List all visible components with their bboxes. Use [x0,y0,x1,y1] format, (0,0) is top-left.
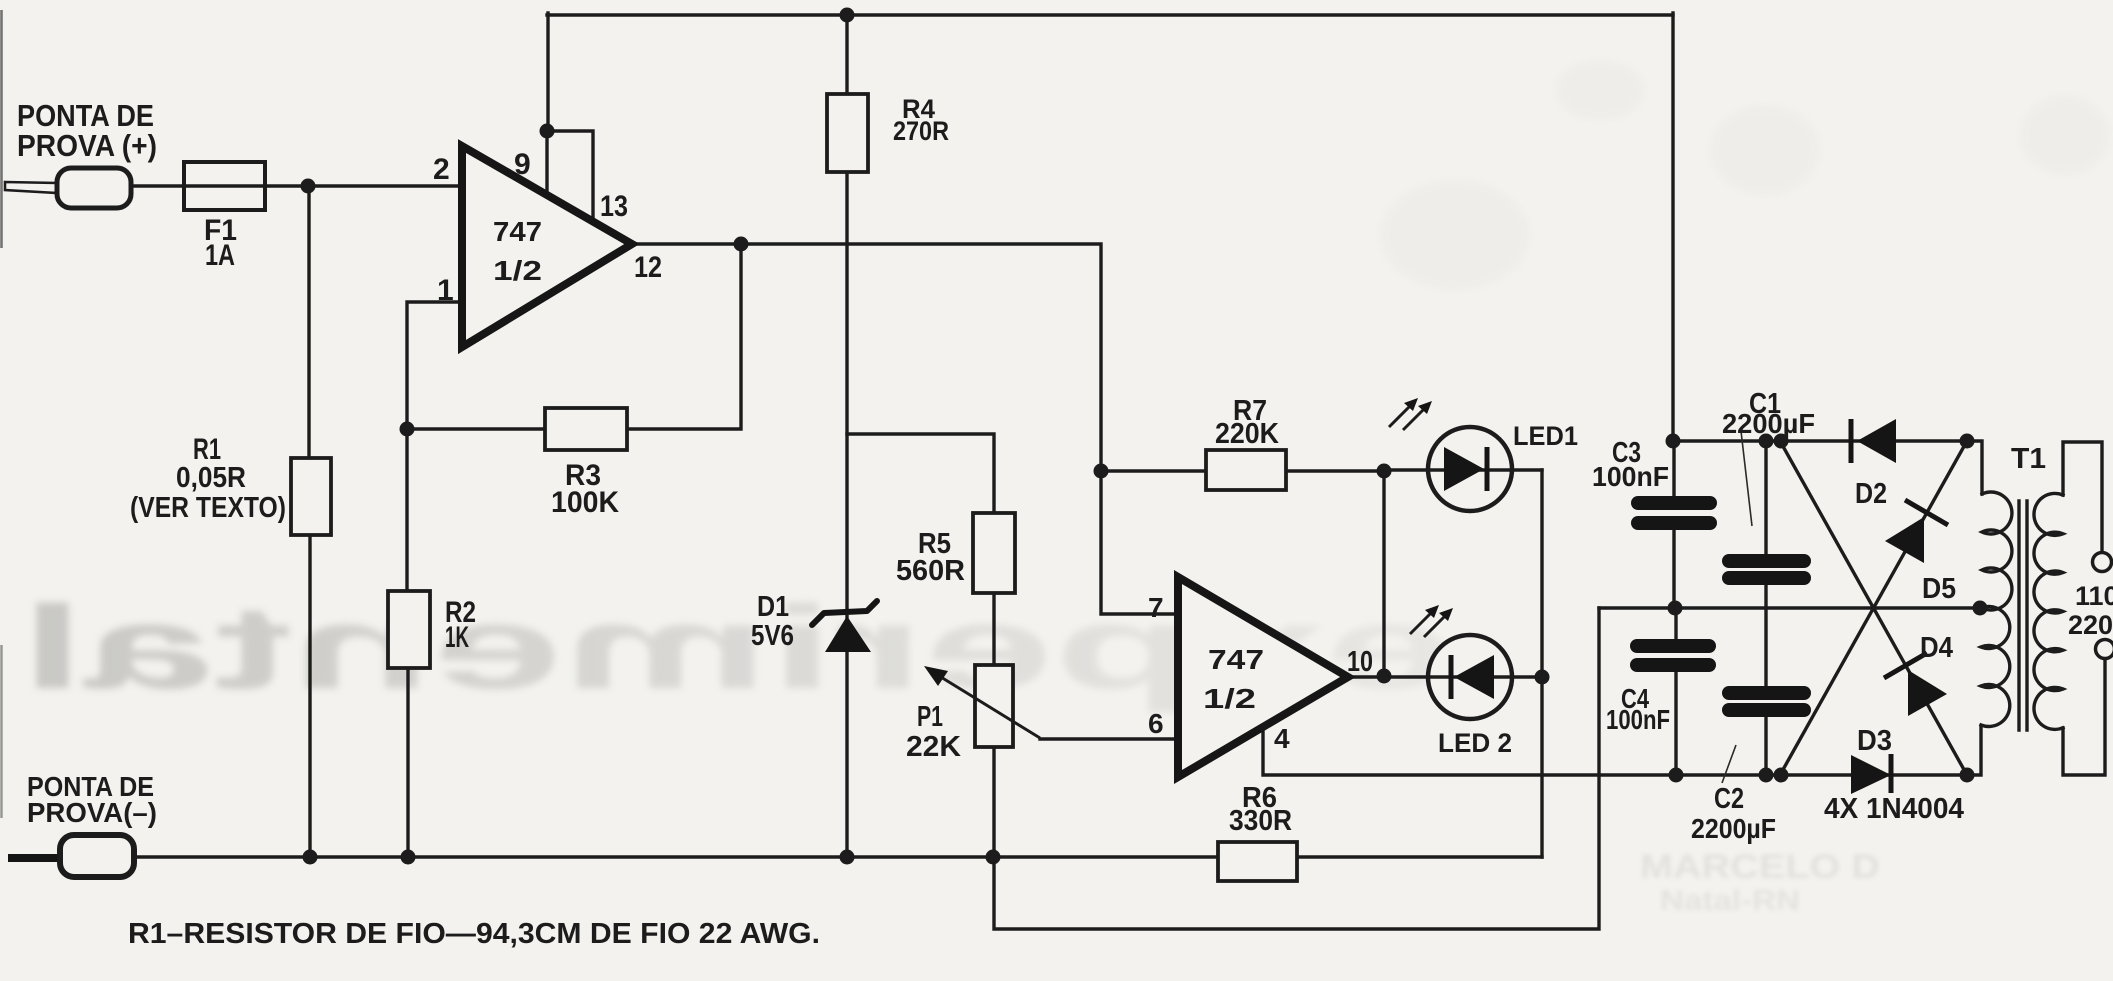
wire C1 C2 leads [1764,441,1767,775]
wire R3 to feedback riser [627,245,741,429]
resistor R6 [1218,842,1297,881]
wire R5 to P1 [992,593,995,665]
junction op2 output node [1377,669,1392,684]
transformer T1 core [2019,501,2027,730]
svg-text:0,05R: 0,05R [176,462,246,494]
junction bridge top left [1774,434,1789,449]
wire bridge diagonal D4 [1780,441,1967,775]
junction bridge top right [1960,434,1975,449]
junction R7 left node [1094,464,1109,479]
junction pin9 node [540,124,555,139]
capacitor C3 100nF [1631,496,1717,530]
diode D5 [1885,500,1948,563]
wire R7 right [1286,469,1384,472]
junction R2 bottom rail [401,850,416,865]
wire R2 to bottom rail [406,668,409,857]
terminal 220V [2096,640,2113,659]
wire node to R1 [307,186,310,458]
LED1 [1389,398,1512,511]
diode D3 [1851,754,1891,794]
svg-text:13: 13 [600,190,628,223]
terminal 110V [2093,553,2112,572]
wire LED column left riser [1382,471,1385,677]
svg-text:Natal-RN: Natal-RN [1660,885,1800,917]
junction P1 bottom rail [986,850,1001,865]
resistor R2 [388,591,430,668]
capacitor C4 100nF [1630,639,1716,672]
wire LED cathode riser [1540,470,1543,857]
leader line C2 label [1722,745,1736,783]
junction C3 positive rail [1666,434,1681,449]
junction probe input node [301,179,316,194]
resistor R7 [1206,450,1286,490]
wire R4 to D1 to bottom rail [845,172,848,857]
WATERMARK ghost print-through (decorative) [20,582,1455,714]
svg-text:4X 1N4004: 4X 1N4004 [1824,793,1964,825]
wire bottom rail left of R6 [133,855,1218,858]
leader line C1 label [1741,431,1752,526]
op-amp U1b 747 1/2 [1178,577,1348,777]
wire R7 left [1101,469,1206,472]
probe PONTA DE PROVA (-) [8,835,134,877]
wire op1 output [628,244,1180,614]
wire secondary top to 110V terminal [2063,442,2102,552]
svg-text:220K: 220K [1215,418,1279,450]
svg-text:1/2: 1/2 [1203,683,1256,714]
diode D4 [1884,653,1947,716]
wire LED1 right [1496,468,1542,471]
wire top rail right drop [1671,13,1674,441]
zener diode D1 5V6 [812,601,877,652]
wire LED2 right [1496,675,1542,678]
svg-text:4: 4 [1274,723,1290,754]
wire secondary bottom to 220V terminal [2063,659,2105,775]
wire top supply rail [547,13,1673,16]
potentiometer P1 22K [924,665,1040,747]
svg-text:D5: D5 [1922,573,1956,605]
svg-text:PROVA (+): PROVA (+) [17,128,157,163]
transformer T1 primary winding [1981,492,2012,726]
wire probe+ to op-amp pin 2 [131,184,462,187]
svg-text:MARCELO D: MARCELO D [1640,848,1880,886]
wire node to R3 [407,427,545,430]
svg-text:D3: D3 [1857,725,1892,757]
wire R1 to bottom rail [308,535,311,857]
op-amp U1a 747 1/2 [462,146,632,347]
capacitor C2 2200uF [1722,686,1811,717]
junction C3 C4 centre rail [1668,601,1683,616]
svg-text:1A: 1A [205,239,235,272]
junction R3 R2 node [400,422,415,437]
junction R4 top rail [840,8,855,23]
junction C2 bottom [1759,768,1774,783]
scan edge artifacts (decorative) [0,10,3,248]
junction R7 LED1 node [1377,464,1392,479]
svg-text:100K: 100K [551,486,619,519]
resistor R3 [545,408,627,450]
junction D1 bottom rail [840,850,855,865]
LED2 [1410,605,1512,719]
wire pin 1 [407,302,462,591]
wire C3 leads [1672,441,1675,608]
junction LED2 cathode [1535,670,1550,685]
svg-text:LED 2: LED 2 [1438,728,1512,758]
svg-text:LED1: LED1 [1513,421,1578,451]
fuse F1 [184,162,265,210]
wire pin 4 negative rail [1263,722,1981,775]
svg-text:747: 747 [1208,644,1264,675]
svg-text:D1: D1 [757,591,789,623]
svg-text:1: 1 [437,274,454,307]
svg-text:100nF: 100nF [1606,704,1670,735]
wire R4 top [845,15,848,95]
wire positive bridge rail [1673,441,1982,494]
transformer T1 secondary winding [2034,493,2063,729]
wire pin 9 stub [545,131,548,198]
svg-text:6: 6 [1148,708,1164,739]
svg-text:C2: C2 [1714,783,1744,815]
wire D1 node to R5 [847,434,994,513]
wire drop from rail to pin9 node [546,13,549,131]
svg-text:1/2: 1/2 [493,255,542,286]
svg-text:9: 9 [514,148,531,181]
junction op1 output feedback [734,237,749,252]
svg-text:10: 10 [1347,646,1373,678]
capacitor C1 2200uF [1722,554,1811,585]
svg-text:100nF: 100nF [1592,461,1669,492]
wire C4 leads [1674,608,1677,775]
junction C4 negative rail [1669,768,1684,783]
probe PONTA DE PROVA (+) [5,168,131,208]
wire bridge diagonal D5 [1780,441,1967,775]
svg-text:1K: 1K [445,621,469,654]
svg-text:T1: T1 [2011,443,2046,475]
svg-text:P1: P1 [917,701,943,733]
junction C1 top [1759,434,1774,449]
wire pin 6 [1040,737,1180,740]
svg-text:D2: D2 [1855,478,1887,510]
svg-text:5V6: 5V6 [751,620,794,652]
svg-text:270R: 270R [893,116,949,146]
junction transformer centre tap [1973,601,1988,616]
wire P1 bottom to midpoint riser [994,608,1599,929]
wire centre tap rail [1599,606,1981,609]
wire to LED1 [1384,468,1446,471]
svg-text:(VER TEXTO): (VER TEXTO) [130,492,286,524]
junction bridge bottom left [1774,768,1789,783]
svg-text:12: 12 [634,251,662,284]
resistor R4 [827,94,868,172]
svg-text:2: 2 [433,153,450,186]
wire R6 to LED riser [1297,855,1542,858]
svg-text:747: 747 [493,216,542,247]
svg-text:22K: 22K [906,731,961,763]
svg-text:7: 7 [1148,592,1164,623]
svg-text:330R: 330R [1229,805,1292,837]
svg-text:110V: 110V [2075,581,2113,611]
svg-text:D4: D4 [1920,632,1953,664]
resistor R5 [973,513,1015,593]
svg-text:R1–RESISTOR DE FIO—94,3CM DE F: R1–RESISTOR DE FIO—94,3CM DE FIO 22 AWG. [128,918,820,950]
svg-text:2200µF: 2200µF [1691,813,1776,844]
junction bridge bottom right [1960,768,1975,783]
wire pin 13 loop [546,131,593,224]
svg-text:220V: 220V [2068,610,2113,640]
svg-text:2200µF: 2200µF [1722,408,1815,439]
svg-text:PROVA(–): PROVA(–) [27,797,157,828]
diode D2 [1851,419,1896,463]
svg-text:560R: 560R [896,555,965,587]
junction R1 bottom rail [303,850,318,865]
resistor R1 [291,458,331,535]
wire op2 output to LED2 [1340,675,1446,678]
